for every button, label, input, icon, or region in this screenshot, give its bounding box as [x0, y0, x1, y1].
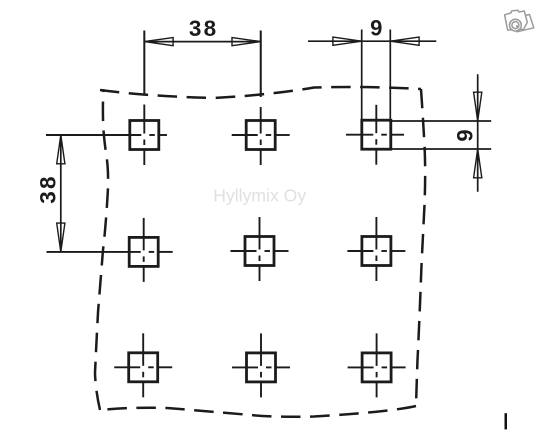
svg-text:9: 9: [370, 15, 382, 40]
hole H9 horizontal centerline: [348, 366, 374, 368]
arrowhead left-38 top (points up): [57, 135, 65, 164]
hole H2 vertical centerline: [260, 31, 262, 98]
hole H5 square: [245, 237, 274, 266]
hole H4 square: [129, 237, 158, 266]
dimension line left 38 (vertical): [60, 135, 62, 252]
hole H1 square: [130, 121, 159, 150]
extension line right-9 top: [391, 120, 491, 122]
dashed sheet outline right edge: [416, 89, 425, 406]
svg-text:38: 38: [189, 16, 218, 41]
arrowhead right-9 bottom (points up): [474, 149, 482, 178]
dashed sheet outline left edge: [95, 89, 108, 410]
hole H9 vertical centerline: [376, 333, 378, 366]
dimension line top 9 (right tail): [390, 40, 436, 42]
hole H9 square: [362, 353, 391, 382]
svg-text:Hyllymix Oy: Hyllymix Oy: [213, 186, 306, 206]
hole H5 horizontal centerline: [231, 250, 257, 252]
arrowhead top-9 left (points right): [333, 37, 362, 45]
hole H4 vertical centerline: [143, 218, 145, 251]
hole H8 square: [247, 353, 276, 382]
hole H6 horizontal centerline: [347, 250, 373, 252]
dashed sheet outline bottom edge: [100, 406, 416, 417]
hole H2 horizontal centerline: [232, 134, 258, 136]
arrowhead top-38 right: [232, 38, 261, 46]
hole H7 horizontal centerline: [114, 366, 140, 368]
arrowhead left-38 bottom (points down): [57, 223, 65, 252]
arrowhead right-9 top (points down): [474, 92, 482, 121]
hole H4 horizontal centerline: [47, 251, 141, 253]
hole H6 square: [362, 237, 391, 266]
hole H3 vertical centerline: [375, 105, 377, 133]
camera icon (top right): [505, 10, 534, 32]
hole H3 horizontal centerline: [346, 134, 373, 136]
extension line top-38 right: [260, 31, 262, 98]
hole H6 vertical centerline: [375, 217, 377, 250]
extension line top-9 right: [389, 30, 391, 151]
extension line right-9 bottom: [391, 148, 491, 150]
dimension line top 9 (middle): [362, 40, 391, 42]
hole H7 square: [129, 353, 158, 382]
hole H8 vertical centerline: [260, 333, 262, 366]
dimension line top 38: [144, 41, 260, 43]
dashed sheet outline top edge: [100, 87, 421, 98]
dimension line top 9 (left tail): [308, 40, 362, 42]
svg-text:38: 38: [35, 174, 60, 203]
hole H1 vertical centerline: [143, 31, 145, 95]
hole H7 vertical centerline: [142, 333, 144, 366]
hole H1 horizontal centerline: [46, 134, 141, 136]
hole H2 square: [246, 121, 275, 150]
dimension line right 9 (vertical): [477, 74, 479, 191]
hole H5 vertical centerline: [259, 217, 261, 250]
arrowhead top-9 right (points left): [390, 37, 419, 45]
hole H8 horizontal centerline: [232, 366, 258, 368]
small black tick bottom right: [505, 413, 508, 429]
arrowhead top-38 left: [144, 38, 173, 46]
extension line top-38 left: [143, 31, 145, 95]
svg-text:9: 9: [453, 129, 478, 141]
extension line top-9 left: [361, 30, 363, 151]
hole H3 square: [362, 120, 391, 149]
